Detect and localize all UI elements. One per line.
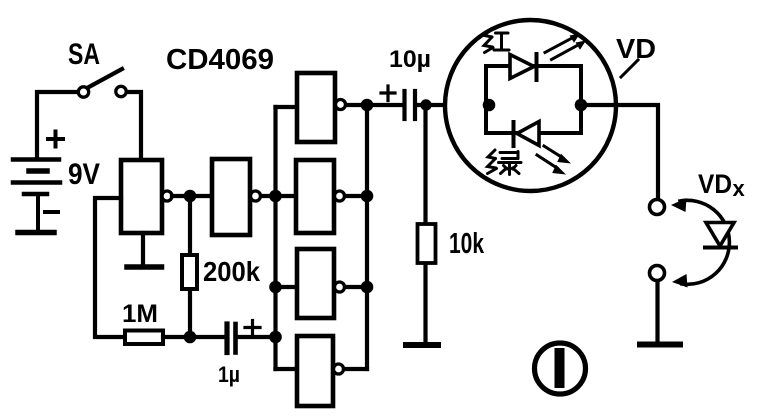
ground (R3 10k) [406, 342, 438, 348]
svg-text:VD: VD [698, 169, 732, 199]
ground (U1A) [141, 233, 145, 264]
svg-text:1M: 1M [122, 300, 158, 328]
diode VD red (top) [510, 55, 534, 79]
svg-text:1µ: 1µ [218, 362, 240, 387]
node B bus junction at U1E input [269, 281, 282, 294]
red emission arrow 2 [552, 45, 579, 60]
glyph red (hong) [484, 29, 509, 53]
diode VD green (bottom) [517, 122, 539, 146]
inverter U1B [212, 159, 250, 235]
wire C2 to LED VD [417, 103, 486, 107]
wire VDx bottom terminal to ground [655, 281, 659, 342]
node C junction top [361, 99, 374, 112]
wire U1C output to C2 [346, 103, 402, 107]
svg-text:x: x [733, 176, 746, 201]
wire 1M to C1 [163, 335, 224, 339]
node C junction row A [361, 190, 374, 203]
wire U1C input stub [276, 105, 298, 109]
inverter U1E [297, 249, 334, 318]
capacitor C1 1u [224, 324, 229, 353]
wire C1 to node B bus [236, 335, 276, 339]
node D junction (R1/R2/C1) [184, 331, 197, 344]
node E junction (C2/R3) [420, 99, 431, 110]
VDx bottom terminal [650, 266, 665, 281]
node A junction [184, 190, 197, 203]
wire U1F input stub [276, 367, 298, 371]
resistor R3 10k [418, 224, 436, 263]
node C junction row B [361, 281, 374, 294]
VDx top terminal [650, 200, 665, 215]
resistor R2 1M [125, 331, 163, 345]
swap arc [680, 200, 729, 284]
node LED left junction [483, 99, 496, 112]
node LED right junction [575, 99, 588, 112]
wire 200k rail [188, 196, 192, 337]
wire LED to VDx top terminal [581, 105, 658, 199]
svg-text:10µ: 10µ [389, 46, 431, 73]
LED VD outer circle [445, 20, 616, 191]
wire node C bus [365, 105, 369, 369]
wire 10k rail [423, 106, 427, 342]
svg-text:10k: 10k [449, 228, 485, 260]
VD pointer tick [621, 60, 638, 77]
inverter U1D [296, 160, 334, 233]
wire battery+ to switch SA [37, 92, 77, 158]
svg-text:9V: 9V [68, 158, 100, 191]
wire U1A input / feedback rail [95, 198, 125, 337]
svg-text:200k: 200k [203, 256, 260, 287]
wire node B bus [273, 107, 277, 369]
glyph green (lv) [488, 150, 522, 175]
inverter U1C [297, 73, 335, 142]
ground (VDx) [640, 342, 680, 348]
wire U1D output [345, 194, 367, 198]
green emission arrow 1 [544, 146, 563, 158]
inverter U1A [121, 160, 162, 233]
LED VD inner loop [486, 66, 581, 133]
wire node B: U1B out to U1D in [261, 194, 296, 198]
green emission arrow 2 [537, 155, 557, 168]
node B junction [269, 190, 282, 203]
svg-text:SA: SA [68, 38, 100, 71]
diode VDx [706, 223, 734, 247]
wire U1F output [344, 367, 367, 371]
wire switch to U1A power pin [128, 92, 141, 160]
inverter U1F [297, 336, 333, 406]
battery GB 9V [13, 132, 63, 233]
figure number 1 [535, 343, 586, 394]
wire U1E output [345, 285, 367, 289]
node B bus junction at C1 [269, 331, 282, 344]
switch SA [78, 87, 88, 97]
wire U1E input stub [276, 285, 298, 289]
wire node A: U1A out to U1B in [172, 194, 212, 198]
capacitor C2 10u [402, 91, 406, 119]
red emission arrow 1 [545, 38, 572, 53]
svg-text:VD: VD [616, 33, 656, 64]
resistor R1 200k [182, 255, 197, 289]
svg-text:CD4069: CD4069 [166, 44, 274, 76]
